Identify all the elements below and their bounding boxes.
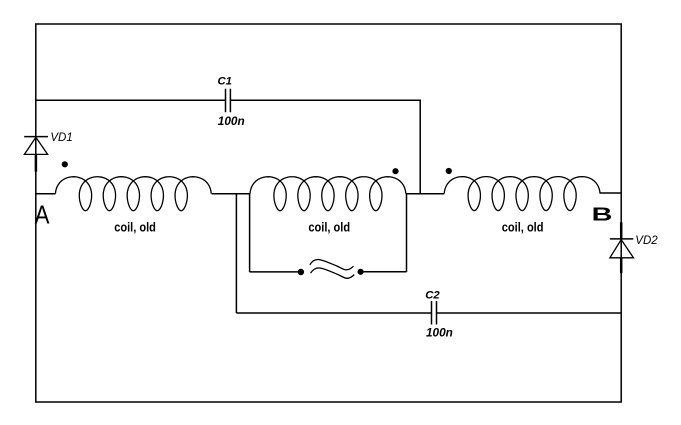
svg-text:100n: 100n xyxy=(426,326,453,340)
junction dot right xyxy=(358,269,364,275)
wire outer border loop xyxy=(36,24,621,402)
polarity dot L1 xyxy=(62,161,68,167)
wire junction J2 between L2 and L3 xyxy=(407,193,445,195)
svg-text:B: B xyxy=(592,205,613,225)
svg-text:VD1: VD1 xyxy=(50,132,72,144)
wire lower link rail left xyxy=(250,271,298,273)
svg-text:coil, old: coil, old xyxy=(502,219,544,234)
wire junction J1 between L1 and L2 xyxy=(212,193,250,195)
wire node B lead xyxy=(600,192,622,194)
wire C2 bottom rail xyxy=(236,312,621,314)
wire lower link rail right xyxy=(363,271,406,273)
capacitor C2 xyxy=(432,301,437,325)
svg-text:A: A xyxy=(35,201,51,230)
svg-text:C2: C2 xyxy=(425,289,440,301)
wire vertical link to J2 xyxy=(406,194,408,272)
capacitor C1 xyxy=(226,89,231,112)
wire C1 top link from left border to junction J2 xyxy=(36,100,420,193)
inductor L3 coil, old (right) xyxy=(444,177,600,211)
polarity dot L2 xyxy=(392,168,398,174)
wire vertical to link rail xyxy=(249,194,251,272)
svg-text:coil, old: coil, old xyxy=(308,219,350,234)
inductor L2 coil, old (middle) xyxy=(250,177,406,211)
svg-text:VD2: VD2 xyxy=(635,235,658,247)
junction dot left xyxy=(298,269,304,275)
twisted link squiggle upper xyxy=(310,259,354,269)
svg-text:C1: C1 xyxy=(218,75,232,87)
svg-text:coil, old: coil, old xyxy=(114,219,156,234)
diode VD1 xyxy=(24,137,48,172)
wire vertical to C2 rail xyxy=(235,194,237,313)
twisted link squiggle lower xyxy=(311,268,355,278)
svg-text:100n: 100n xyxy=(218,114,245,128)
inductor L1 coil, old (left) xyxy=(55,177,211,211)
polarity dot L3 xyxy=(446,168,452,174)
diode VD2 xyxy=(610,222,634,273)
wire node A lead xyxy=(36,193,56,195)
